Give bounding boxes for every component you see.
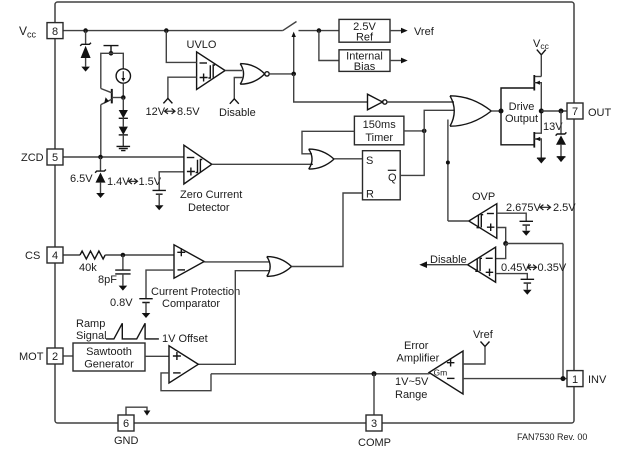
svg-text:Bias: Bias bbox=[354, 61, 376, 73]
comparator U6 (PWM) bbox=[169, 346, 198, 383]
svg-text:1V~5V: 1V~5V bbox=[395, 376, 429, 388]
pin 7 OUT bbox=[567, 103, 583, 119]
svg-text:1: 1 bbox=[572, 374, 578, 386]
wire: sawtooth to comparator bbox=[145, 355, 169, 357]
wire: UVLO + input from 12V/8.5V bbox=[168, 77, 197, 99]
wire: junction to INV riser bbox=[506, 243, 563, 245]
svg-text:Vref: Vref bbox=[414, 26, 435, 38]
transistor M1 (PMOS) bbox=[534, 76, 541, 78]
wire: timer output to node bbox=[404, 130, 424, 132]
svg-text:R: R bbox=[366, 189, 374, 201]
wire: OVP - to battery bbox=[497, 213, 526, 221]
svg-text:2: 2 bbox=[52, 351, 58, 363]
svg-text:Generator: Generator bbox=[84, 359, 134, 371]
node: drive input bbox=[499, 109, 504, 114]
wire: feedback jog bbox=[161, 373, 211, 391]
ground arrow (6.5V zener) bbox=[96, 193, 105, 198]
switch blade bbox=[283, 22, 297, 31]
node: dot on OVP line bbox=[446, 161, 450, 165]
svg-text:Detector: Detector bbox=[188, 202, 230, 214]
comparator U5 (current protection) bbox=[174, 245, 204, 278]
wire: MOT comp output riser bbox=[198, 271, 270, 365]
wire: bias loop bbox=[101, 53, 124, 88]
pin 3 COMP bbox=[366, 415, 382, 431]
node: COMP junction bbox=[372, 371, 377, 376]
svg-text:6: 6 bbox=[123, 418, 129, 430]
wire: OR output to drive box bbox=[491, 110, 501, 112]
node: Vcc-zener junction bbox=[83, 28, 88, 33]
svg-text:5: 5 bbox=[52, 152, 58, 164]
wire: UVLO - input bbox=[166, 31, 196, 63]
pin 6 GND bbox=[118, 415, 134, 431]
wire: MOT pin to sawtooth bbox=[63, 355, 73, 357]
node: current source/diode junction bbox=[121, 95, 126, 100]
svg-text:OUT: OUT bbox=[588, 107, 612, 119]
IC boundary bbox=[55, 2, 574, 423]
svg-text:INV: INV bbox=[588, 374, 607, 386]
svg-text:Sawtooth: Sawtooth bbox=[86, 346, 132, 358]
svg-text:8pF: 8pF bbox=[98, 274, 117, 286]
node: NOR output junction bbox=[291, 72, 296, 77]
svg-text:6.5V: 6.5V bbox=[70, 173, 93, 185]
wire: OVP + input bbox=[497, 228, 506, 244]
svg-text:GND: GND bbox=[114, 435, 139, 447]
pin 1 INV bbox=[567, 371, 583, 387]
svg-text:2.5V: 2.5V bbox=[553, 202, 576, 214]
diode D2 bbox=[122, 118, 124, 126]
wire: COMP pin riser bbox=[373, 374, 375, 415]
zener diode (Vcc clamp) bbox=[85, 31, 87, 45]
svg-text:4: 4 bbox=[52, 250, 58, 262]
ground arrow (13V zener) bbox=[557, 157, 566, 162]
wire: junction to disable comp - bbox=[496, 244, 506, 259]
wire: Vcc pin 8 to switch bbox=[63, 30, 283, 32]
svg-text:1.5V: 1.5V bbox=[139, 176, 162, 188]
svg-text:2.675V: 2.675V bbox=[506, 202, 542, 214]
wire: OVP output up bbox=[448, 220, 469, 222]
wire: inverter out to OR bbox=[387, 101, 454, 103]
svg-text:Vref: Vref bbox=[473, 329, 494, 341]
node: 13V zener tap bbox=[559, 109, 564, 114]
svg-text:13V: 13V bbox=[543, 121, 563, 133]
ramp waveform bbox=[106, 323, 159, 339]
svg-text:Signal: Signal bbox=[76, 330, 107, 342]
svg-text:12V: 12V bbox=[146, 106, 166, 118]
svg-text:ZCD: ZCD bbox=[21, 152, 44, 164]
wire: CS pin to resistor bbox=[63, 254, 80, 256]
wire: switch to ref node bbox=[299, 30, 340, 32]
wire: Disable input to NOR bbox=[234, 78, 243, 99]
svg-text:40k: 40k bbox=[79, 262, 97, 274]
wire: ZCD pin to detector bbox=[63, 156, 184, 158]
svg-text:S: S bbox=[366, 155, 373, 167]
svg-text:Error: Error bbox=[404, 340, 429, 352]
svg-text:Comparator: Comparator bbox=[162, 298, 220, 310]
wire: branch to Internal Bias bbox=[319, 31, 339, 61]
wire: GND pin loop arrow bbox=[126, 407, 147, 415]
node: ref/bias branch junction bbox=[317, 28, 322, 33]
wire: ZCD output to OR bbox=[212, 163, 313, 165]
wire: OVP vertical to OR bbox=[447, 120, 449, 222]
diode D1 bbox=[122, 98, 124, 111]
svg-text:7: 7 bbox=[572, 106, 578, 118]
zener 6.5V bbox=[100, 157, 102, 171]
wire: UVLO output bbox=[225, 70, 242, 72]
svg-text:3: 3 bbox=[371, 418, 377, 430]
comparator U4 (disable) bbox=[468, 247, 496, 282]
box: Drive Output bbox=[501, 88, 534, 145]
wire: Vref output arrow bbox=[390, 30, 401, 32]
wire: comparator output to OR bbox=[204, 261, 270, 263]
OR gate G4 (drive) bbox=[450, 96, 491, 126]
svg-text:Ramp: Ramp bbox=[76, 318, 105, 330]
node: ZCD junction bbox=[98, 155, 103, 160]
comparator: Zero Current Detector bbox=[184, 145, 212, 184]
OR gate G5 bbox=[267, 257, 292, 277]
NOR gate G1 bbox=[240, 64, 265, 85]
svg-text:FAN7530 Rev. 00: FAN7530 Rev. 00 bbox=[517, 432, 587, 442]
svg-text:OVP: OVP bbox=[472, 191, 495, 203]
inverter G2 bbox=[368, 94, 383, 110]
svg-text:UVLO: UVLO bbox=[187, 39, 217, 51]
svg-text:Drive: Drive bbox=[509, 101, 535, 113]
wire: NOR output bbox=[269, 73, 294, 75]
svg-text:Gm: Gm bbox=[434, 368, 448, 378]
capacitor 8pF bbox=[122, 255, 124, 270]
node: INV junction bbox=[561, 376, 566, 381]
svg-text:1.4V: 1.4V bbox=[107, 176, 130, 188]
pin 2 MOT bbox=[47, 348, 63, 364]
box: 2.5V Ref bbox=[339, 19, 390, 42]
node: OVP/INV junction bbox=[503, 241, 508, 246]
wire: disable output arrow bbox=[427, 264, 468, 266]
zener 13V bbox=[560, 111, 562, 134]
wire: switch control arrow bbox=[293, 36, 295, 73]
ground (earth, diode string) bbox=[117, 146, 131, 150]
pin 4 CS bbox=[47, 247, 63, 263]
svg-text:Zero Current: Zero Current bbox=[180, 189, 242, 201]
node: UVLO branch junction bbox=[164, 28, 169, 33]
node: CS filter junction bbox=[121, 253, 126, 258]
wire: resistor to comparator bbox=[105, 254, 174, 256]
wire: - input to 0.8V battery bbox=[146, 270, 174, 299]
current source I1 bbox=[116, 69, 130, 83]
box: Sawtooth Generator bbox=[73, 343, 145, 371]
wire: OR to S input bbox=[334, 158, 363, 160]
wire: Qbar to drive OR bbox=[400, 110, 454, 175]
svg-text:Amplifier: Amplifier bbox=[397, 353, 440, 365]
svg-text:Range: Range bbox=[395, 389, 427, 401]
wire: output node to pin 7 bbox=[541, 110, 567, 112]
svg-text:MOT: MOT bbox=[19, 351, 44, 363]
OR gate G3 bbox=[309, 149, 334, 169]
svg-text:0.8V: 0.8V bbox=[110, 297, 133, 309]
T-bar stub bbox=[104, 46, 119, 54]
ground arrow (NMOS source) bbox=[537, 158, 546, 163]
svg-text:Ref: Ref bbox=[356, 32, 374, 44]
wire: disable comp + to battery bbox=[496, 274, 528, 280]
svg-text:1V Offset: 1V Offset bbox=[162, 333, 208, 345]
pin 5 ZCD bbox=[47, 149, 63, 165]
node: bias loop junction bbox=[109, 51, 114, 56]
resistor 40k bbox=[80, 251, 105, 259]
node: timer/Q junction bbox=[422, 129, 427, 134]
wire: bias output arrow bbox=[390, 60, 401, 62]
svg-text:Disable: Disable bbox=[219, 107, 256, 119]
caret Disable bbox=[230, 99, 239, 104]
transistor Q1 bbox=[111, 89, 113, 104]
wire: to inverter bbox=[294, 74, 368, 102]
pin 8 Vcc bbox=[47, 23, 63, 39]
wire: error amp output line bbox=[211, 373, 430, 375]
svg-text:8: 8 bbox=[52, 26, 58, 38]
transistor M2 (NMOS) bbox=[534, 111, 541, 133]
node: drive output bbox=[539, 109, 544, 114]
svg-text:150ms: 150ms bbox=[363, 119, 397, 131]
svg-text:Output: Output bbox=[505, 113, 538, 125]
wire: timer to OR loop bbox=[302, 131, 354, 154]
svg-text:COMP: COMP bbox=[358, 437, 391, 449]
wire: error amp - to INV bbox=[463, 378, 567, 380]
SR latch U2 bbox=[363, 151, 401, 200]
box: 150ms Timer bbox=[354, 116, 404, 145]
svg-text:Timer: Timer bbox=[365, 132, 393, 144]
wire: OR output to R input bbox=[292, 193, 363, 267]
svg-text:Disable: Disable bbox=[430, 254, 467, 266]
wire: base to node bbox=[112, 97, 124, 99]
svg-text:CS: CS bbox=[25, 250, 40, 262]
box: Internal Bias bbox=[339, 50, 390, 72]
svg-text:Q: Q bbox=[388, 172, 397, 184]
caret 12V/8.5V bbox=[163, 98, 172, 103]
wire: riser down to INV bbox=[562, 244, 564, 379]
svg-text:8.5V: 8.5V bbox=[177, 106, 200, 118]
svg-text:Current Protection: Current Protection bbox=[151, 286, 240, 298]
svg-text:0.35V: 0.35V bbox=[538, 262, 567, 274]
svg-text:0.45V: 0.45V bbox=[501, 262, 530, 274]
ground arrow (Vcc zener) bbox=[81, 67, 90, 72]
